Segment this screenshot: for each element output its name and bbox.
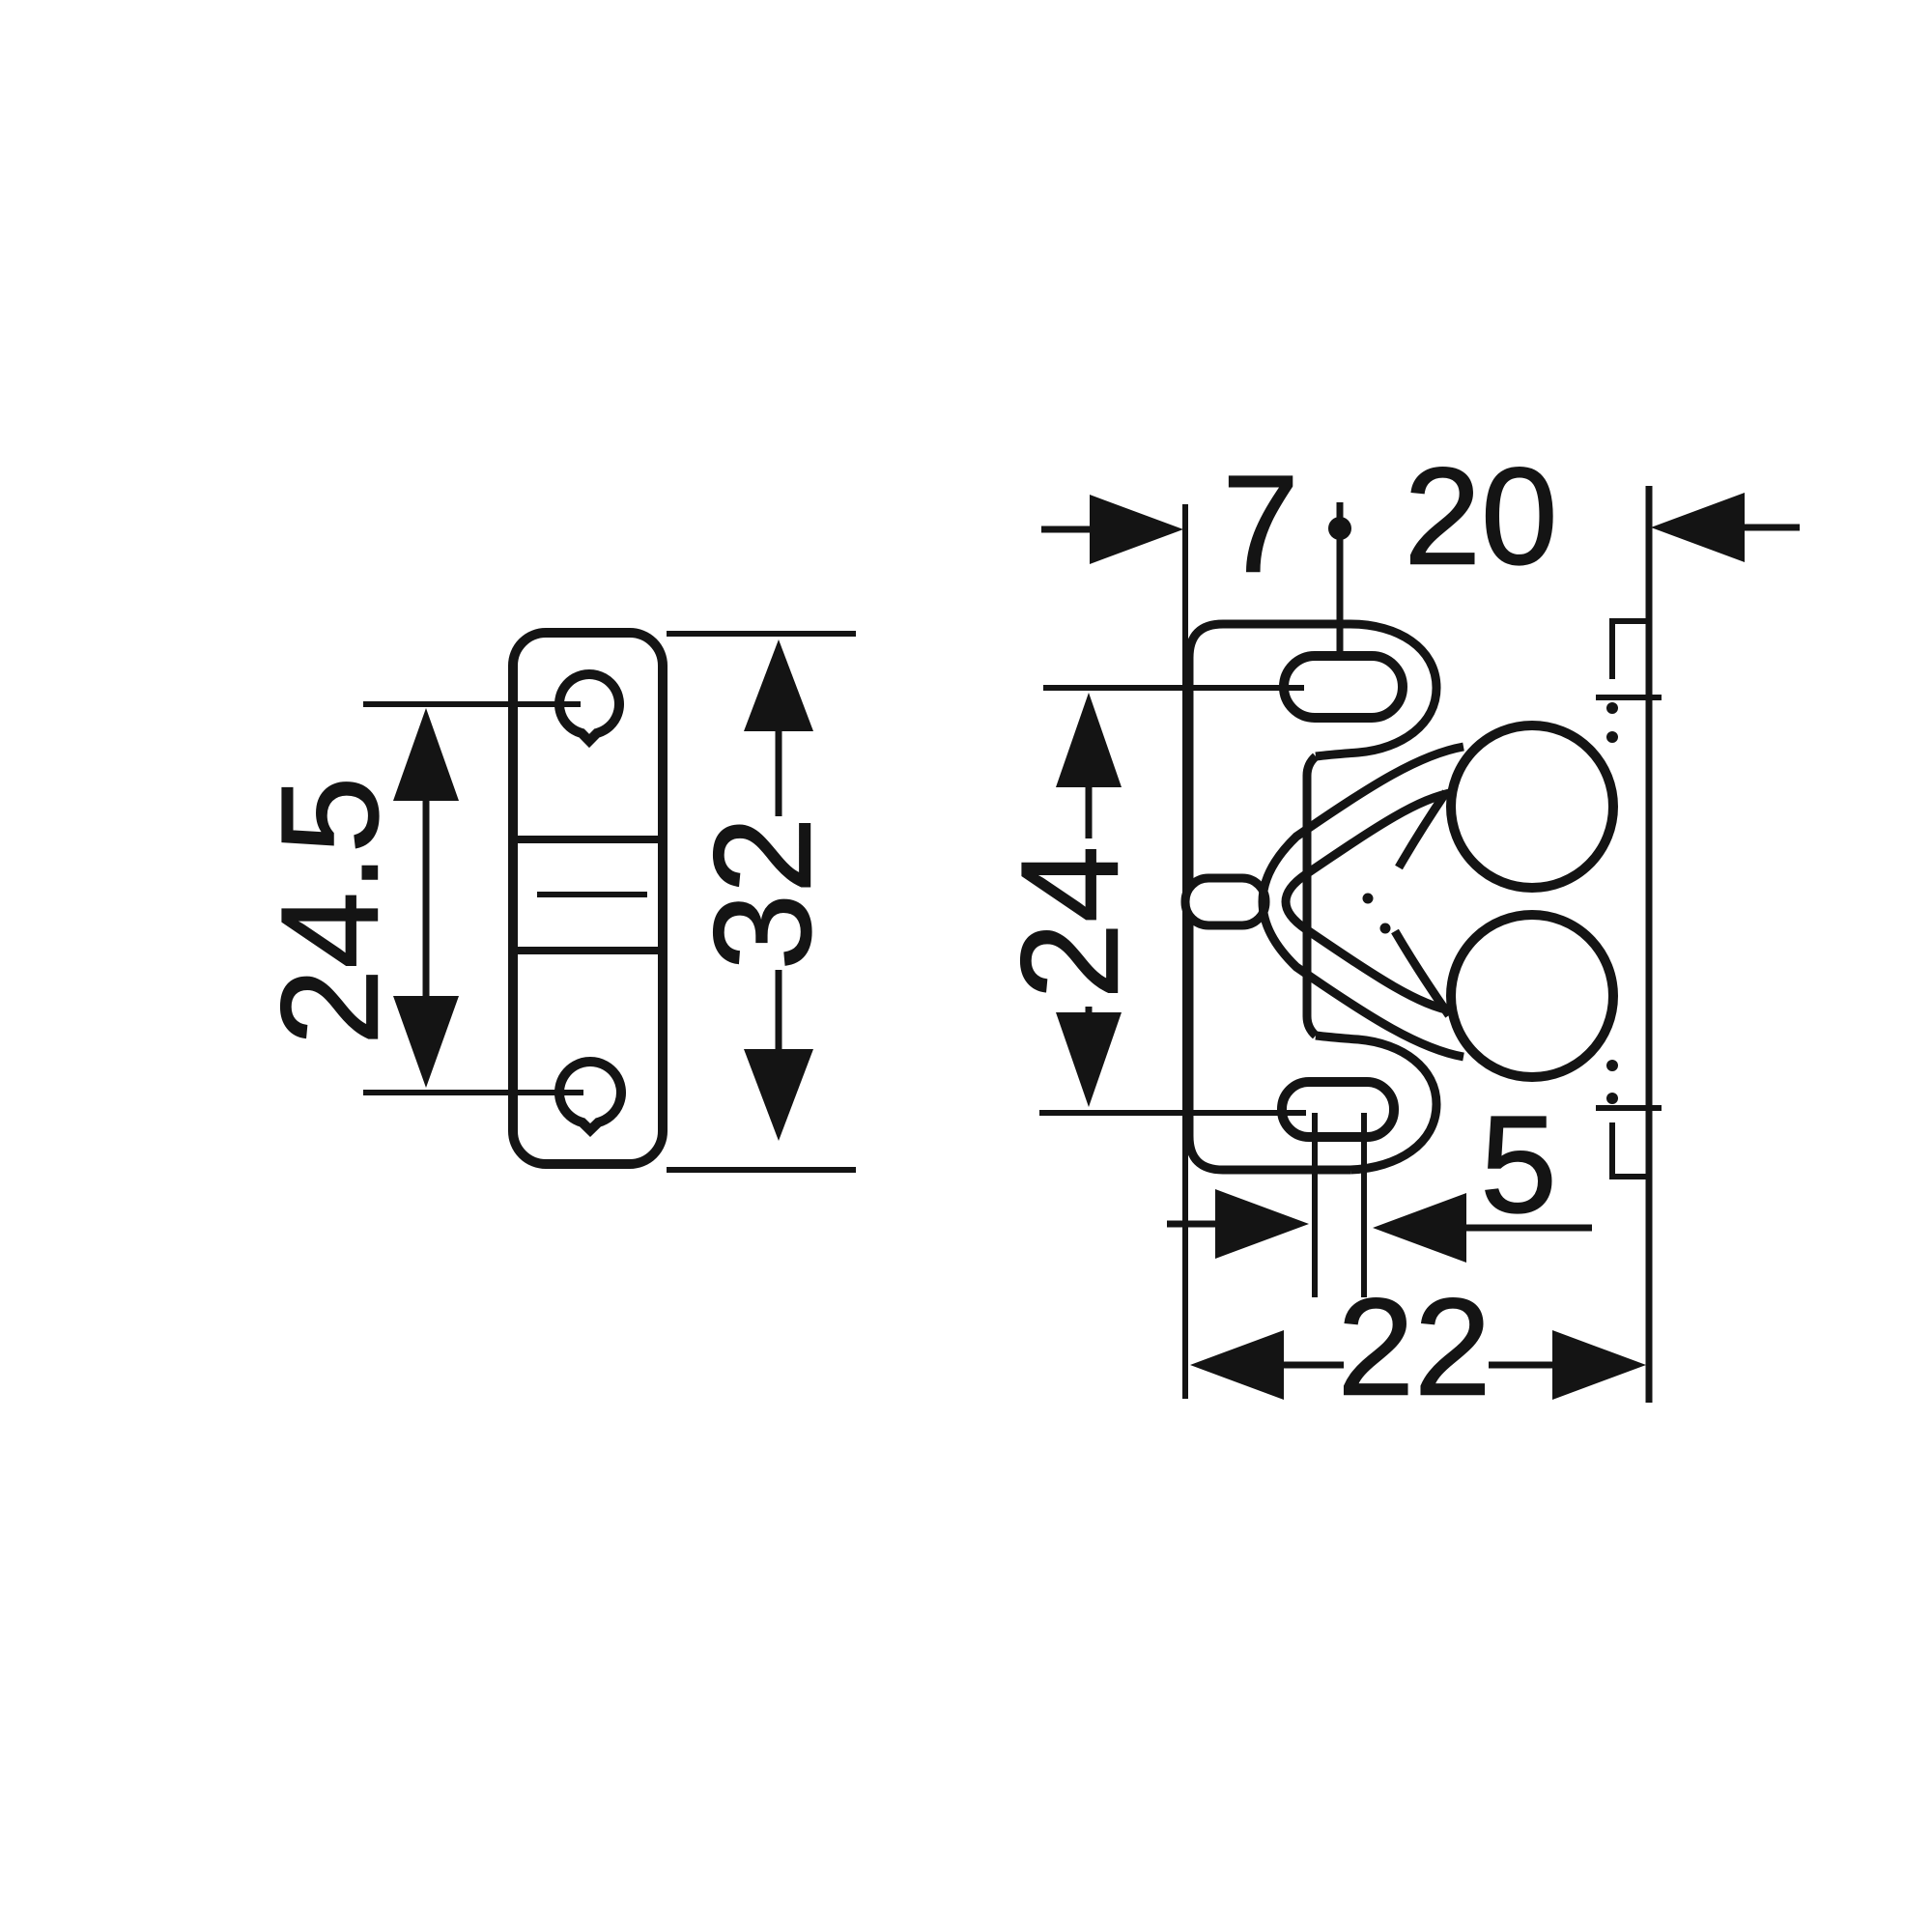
- svg-text:24.5: 24.5: [254, 777, 408, 1045]
- slot centre pointer dot: [1328, 517, 1351, 540]
- dim 5 arrow shaft left: [1167, 1221, 1219, 1228]
- spring wrap lower: [1395, 931, 1449, 1015]
- svg-text:24: 24: [994, 845, 1148, 999]
- frame bracket bottom: [1612, 1122, 1649, 1177]
- V spring inner contour: [1286, 792, 1454, 1011]
- svg-text:20: 20: [1404, 440, 1557, 594]
- dim 22 line right: [1489, 1362, 1552, 1369]
- spring wrap upper: [1399, 792, 1446, 867]
- leader line 32 bottom: [667, 1167, 856, 1173]
- screw hole bottom: [559, 1062, 621, 1130]
- body outline: [1189, 624, 1350, 1170]
- svg-text:32: 32: [687, 816, 840, 970]
- roller lower: [1451, 915, 1613, 1077]
- centre dot lower: [1380, 923, 1391, 934]
- leader line slot bottom: [1039, 1110, 1306, 1116]
- svg-text:7: 7: [1222, 448, 1299, 602]
- dim 24 line upper: [1086, 787, 1093, 838]
- slot bottom: [1282, 1082, 1394, 1137]
- dim 24 arrow down: [1056, 1012, 1122, 1107]
- plate lower split line: [513, 947, 663, 954]
- dim 22 arrow right-pointing: [1552, 1330, 1646, 1400]
- frame centreline dot 3: [1606, 1060, 1618, 1071]
- plate middle short line: [537, 892, 647, 897]
- body inner right edge: [1307, 756, 1316, 1036]
- left extension line: [1182, 504, 1188, 1399]
- centre dot upper: [1363, 894, 1374, 904]
- dim 22 line left: [1284, 1362, 1344, 1369]
- body bottom hook around slot: [1316, 1036, 1436, 1170]
- dim 5 arrow shaft right: [1466, 1225, 1592, 1232]
- dim 5 line right: [1361, 1113, 1367, 1297]
- dim 20 arrow left: [1651, 493, 1745, 562]
- leader line top hole: [363, 701, 581, 707]
- slot top: [1284, 656, 1403, 718]
- dim 5 line left: [1312, 1113, 1318, 1297]
- frame centreline dot 2: [1606, 731, 1618, 743]
- dim 22 arrow left-pointing: [1190, 1330, 1284, 1400]
- frame centreline dot 1: [1606, 702, 1618, 714]
- dim 32 arrow up: [744, 639, 813, 731]
- dim 5 arrow left-pointing: [1373, 1193, 1466, 1263]
- frame centreline dot 4: [1606, 1093, 1618, 1104]
- spring tab left: [1185, 878, 1265, 925]
- frame tick bottom: [1596, 1105, 1662, 1111]
- body top hook around slot: [1316, 624, 1436, 756]
- leader line bottom hole: [363, 1090, 583, 1095]
- dim 32 line lower: [776, 970, 782, 1049]
- leader line slot top: [1043, 685, 1304, 691]
- screw hole top: [559, 674, 619, 741]
- V spring outer contour: [1263, 747, 1463, 1057]
- frame bracket top: [1612, 621, 1649, 679]
- dim 5 arrow right-pointing: [1215, 1189, 1309, 1259]
- svg-text:22: 22: [1337, 1271, 1491, 1425]
- slot centre pointer line: [1337, 502, 1344, 658]
- dim 20 arrow shaft: [1745, 525, 1800, 531]
- dim 24.5 arrow down: [393, 996, 459, 1088]
- dim 32 line upper: [776, 731, 782, 816]
- roller upper: [1451, 725, 1613, 888]
- frame tick top: [1596, 695, 1662, 700]
- dim 24 arrow up: [1056, 693, 1122, 787]
- dim 7 arrow right: [1090, 495, 1183, 564]
- plate upper split line: [513, 836, 663, 843]
- svg-text:5: 5: [1480, 1089, 1557, 1242]
- dim 24 line lower: [1086, 1007, 1093, 1012]
- leader line 32 top: [667, 631, 856, 637]
- dim 24.5 arrow up: [393, 708, 459, 801]
- dim 7 arrow shaft: [1041, 526, 1094, 533]
- door frame line right: [1646, 486, 1653, 1403]
- dim 32 arrow down: [744, 1049, 813, 1141]
- dim 24.5 line: [423, 801, 430, 996]
- plate outline: [513, 633, 663, 1164]
